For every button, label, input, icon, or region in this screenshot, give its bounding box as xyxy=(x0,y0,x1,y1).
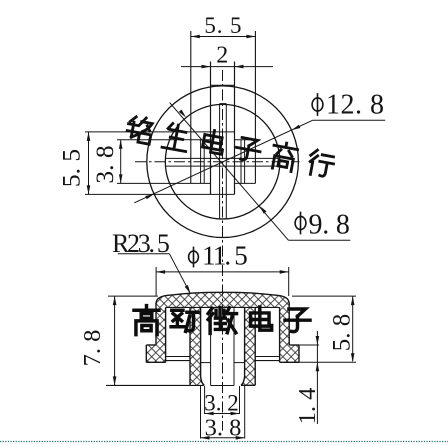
svg-text:12. 8: 12. 8 xyxy=(326,90,385,121)
svg-text:3. 2: 3. 2 xyxy=(204,391,239,416)
svg-text:11. 5: 11. 5 xyxy=(202,241,247,271)
svg-text:5. 8: 5. 8 xyxy=(329,314,356,352)
svg-text:5. 5: 5. 5 xyxy=(204,13,242,38)
svg-text:3. 8: 3. 8 xyxy=(90,145,119,183)
svg-text:5. 5: 5. 5 xyxy=(57,149,86,187)
svg-text:7. 8: 7. 8 xyxy=(79,330,106,367)
svg-text:2: 2 xyxy=(216,43,228,69)
svg-text:1. 4: 1. 4 xyxy=(294,388,321,425)
svg-text:3. 8: 3. 8 xyxy=(205,415,242,442)
svg-text:9. 8: 9. 8 xyxy=(309,210,350,241)
